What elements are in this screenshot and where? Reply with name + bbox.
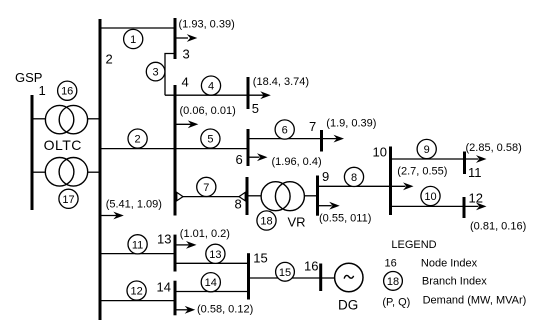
svg-text:14: 14 [157, 280, 171, 295]
branch 11 index circle [128, 235, 147, 254]
bus node 5 [247, 77, 250, 109]
svg-text:16: 16 [385, 257, 397, 269]
svg-text:13: 13 [209, 249, 221, 261]
svg-text:10: 10 [424, 191, 436, 203]
svg-text:VR: VR [288, 214, 306, 229]
svg-text:Node Index: Node Index [421, 258, 478, 270]
wire branch 2 and branch 5 [100, 148, 248, 150]
svg-text:6: 6 [282, 125, 288, 137]
svg-text:3: 3 [183, 47, 190, 62]
svg-text:(5.41, 1.09): (5.41, 1.09) [106, 199, 162, 211]
wire GSP bus to OLTC T1 [33, 118, 46, 120]
wire branch 11 [100, 253, 175, 255]
branch 10 index circle [421, 186, 440, 205]
branch 6 index circle [275, 120, 294, 139]
branch 9 index circle [417, 139, 436, 158]
branch 5 index circle [201, 129, 220, 148]
bus node 2 (main bus) [99, 19, 102, 320]
wire branch 13 [175, 262, 249, 264]
svg-text:15: 15 [279, 267, 291, 279]
wire branch 3 bracket [165, 54, 175, 96]
load arrow node 13 [175, 241, 197, 249]
svg-text:1: 1 [130, 34, 136, 46]
wire GSP bus to OLTC T2 [33, 171, 46, 173]
svg-text:DG: DG [338, 297, 358, 312]
svg-text:LEGEND: LEGEND [391, 239, 436, 251]
transformer VR [261, 182, 304, 211]
wire branch 9 and node 11 load arrow [391, 155, 487, 163]
branch 16 index circle [58, 81, 77, 100]
svg-text:(0.58, 0.12): (0.58, 0.12) [197, 304, 253, 316]
branch 17 index circle [59, 189, 78, 208]
svg-text:2: 2 [106, 51, 113, 66]
svg-text:Demand (MW, MVAr): Demand (MW, MVAr) [423, 294, 527, 306]
svg-text:7: 7 [309, 119, 316, 134]
svg-text:9: 9 [322, 169, 329, 184]
branch 2 index circle [128, 129, 147, 148]
svg-text:4: 4 [208, 81, 214, 93]
branch 14 index circle [201, 273, 220, 292]
svg-text:5: 5 [207, 134, 213, 146]
transformer OLTC T1 [45, 105, 87, 133]
svg-text:6: 6 [236, 152, 243, 167]
svg-text:12: 12 [469, 190, 483, 205]
svg-text:Branch Index: Branch Index [422, 276, 487, 288]
svg-text:13: 13 [157, 232, 171, 247]
wire branch 4 and node 5 load arrow [165, 91, 271, 99]
svg-text:15: 15 [253, 250, 267, 265]
wire OLTC T2 to main bus [87, 171, 100, 173]
svg-text:3: 3 [153, 67, 159, 79]
svg-text:2: 2 [135, 134, 141, 146]
svg-text:16: 16 [304, 259, 318, 274]
bus node 15 [247, 253, 250, 299]
svg-text:5: 5 [252, 101, 259, 116]
svg-text:16: 16 [61, 86, 73, 98]
bus node 7 [320, 130, 323, 152]
svg-text:18: 18 [260, 216, 272, 228]
bus node 8 [246, 177, 249, 215]
svg-text:(0.06, 0.01): (0.06, 0.01) [180, 105, 236, 117]
wire branch 6 and node 7 load arrow [248, 135, 344, 143]
wire branch 15 [249, 277, 322, 279]
branch 13 index circle [206, 244, 225, 263]
svg-text:17: 17 [62, 194, 74, 206]
svg-text:10: 10 [373, 145, 387, 160]
load arrow node 3 [175, 34, 197, 42]
bus node 11 [463, 152, 466, 175]
wire node 8 bus to VR [247, 195, 262, 197]
svg-text:(1.01, 0.2): (1.01, 0.2) [180, 228, 230, 240]
wire node 16 to DG [322, 277, 336, 279]
load arrow node 14 [175, 306, 195, 314]
load arrow node 9 [318, 202, 340, 210]
branch 15 index circle [276, 262, 295, 281]
svg-text:18: 18 [387, 276, 399, 288]
bus node 3 [174, 18, 177, 59]
branch 4 index circle [201, 76, 220, 95]
bus node 9 [316, 176, 319, 216]
wire branch 10 and node 12 load arrow [391, 203, 487, 211]
svg-text:(P, Q): (P, Q) [382, 296, 410, 308]
wire VR to node 9 bus [304, 195, 318, 197]
svg-text:14: 14 [205, 277, 217, 289]
bus node 16 [319, 264, 322, 292]
legend branch index circle [384, 272, 403, 291]
wire branch 7 with open arrowheads [177, 192, 245, 200]
svg-text:8: 8 [351, 172, 357, 184]
svg-text:(18.4, 3.74): (18.4, 3.74) [253, 76, 309, 88]
load arrow node 4 [175, 120, 198, 128]
svg-text:4: 4 [182, 74, 189, 89]
bus node 14 [174, 281, 177, 316]
load arrow node 6 [248, 153, 268, 161]
svg-text:(1.96, 0.4): (1.96, 0.4) [272, 156, 322, 168]
bus node 13 [174, 235, 177, 272]
bus node 10 [389, 147, 392, 216]
svg-text:(0.55, 011): (0.55, 011) [319, 212, 371, 224]
wire branch 14 [175, 291, 249, 293]
svg-text:11: 11 [468, 165, 482, 180]
svg-text:OLTC: OLTC [44, 137, 82, 153]
bus node 1 (GSP bus) [31, 95, 34, 210]
svg-text:11: 11 [132, 239, 143, 251]
wire branch 1 [100, 27, 175, 29]
svg-text:(2.85, 0.58): (2.85, 0.58) [466, 142, 522, 154]
wire branch 12 [100, 300, 175, 302]
wire branch 8 and node 10 load arrow [318, 182, 414, 190]
wire OLTC T1 to main bus [87, 118, 100, 120]
svg-text:12: 12 [130, 286, 142, 298]
svg-text:(1.93, 0.39): (1.93, 0.39) [179, 18, 235, 30]
generator DG [335, 263, 363, 291]
branch 7 index circle [197, 177, 216, 196]
bus node 12 [463, 197, 466, 218]
svg-text:(0.81, 0.16): (0.81, 0.16) [470, 221, 526, 233]
svg-text:8: 8 [235, 197, 242, 212]
svg-text:1: 1 [39, 83, 46, 98]
svg-text:7: 7 [203, 182, 209, 194]
branch 8 index circle [344, 167, 363, 186]
branch 1 index circle [124, 29, 143, 48]
bus node 6 [247, 129, 250, 166]
bus node 4 [174, 85, 177, 216]
load arrow node 2 [100, 212, 124, 220]
transformer OLTC T2 [45, 158, 87, 187]
branch 12 index circle [127, 281, 146, 300]
svg-text:(2.7, 0.55): (2.7, 0.55) [397, 166, 447, 178]
svg-text:(1.9, 0.39): (1.9, 0.39) [326, 117, 376, 129]
svg-text:9: 9 [424, 144, 430, 156]
branch 3 index circle [146, 62, 165, 81]
branch 18 index circle (VR) [257, 211, 276, 230]
